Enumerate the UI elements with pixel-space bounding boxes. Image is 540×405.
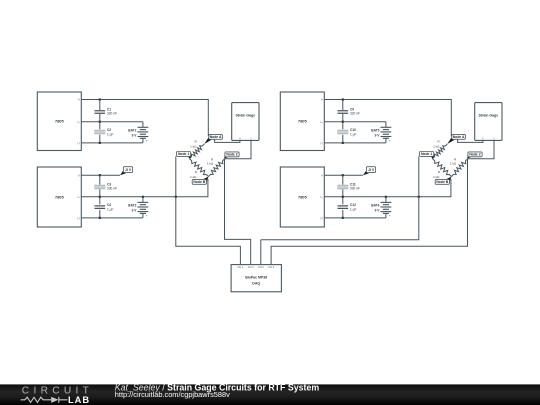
svg-text:A: A <box>321 98 323 102</box>
svg-text:1 kΩ: 1 kΩ <box>450 162 457 166</box>
svg-text:1 µF: 1 µF <box>350 132 356 136</box>
svg-text:CH 1: CH 1 <box>237 265 243 269</box>
svg-text:Node 1: Node 1 <box>421 152 432 156</box>
svg-text:-5 V: -5 V <box>125 168 132 172</box>
svg-text:(-): (-) <box>320 216 323 220</box>
svg-text:1 kΩ: 1 kΩ <box>190 175 197 179</box>
svg-text:Node B: Node B <box>436 180 448 184</box>
svg-text:1 µF: 1 µF <box>107 207 113 211</box>
svg-text:330 nF: 330 nF <box>107 112 117 116</box>
svg-text:I+: I+ <box>320 120 323 124</box>
svg-text:1 kΩ: 1 kΩ <box>190 144 197 148</box>
svg-text:CH 4: CH 4 <box>268 265 274 269</box>
svg-text:+: + <box>146 139 148 143</box>
svg-text:+: + <box>146 214 148 218</box>
svg-text:Node A: Node A <box>453 135 465 139</box>
svg-text:I+: I+ <box>77 120 80 124</box>
svg-text:7805: 7805 <box>298 119 308 124</box>
svg-text:A: A <box>78 98 80 102</box>
svg-text:Strain Gage: Strain Gage <box>479 114 499 118</box>
svg-text:(-): (-) <box>77 216 80 220</box>
svg-text:A: A <box>321 173 323 177</box>
svg-text:Node 2: Node 2 <box>469 153 480 157</box>
svg-text:330 nF: 330 nF <box>107 187 117 191</box>
svg-text:BAT2: BAT2 <box>128 203 136 207</box>
svg-text:CH 3: CH 3 <box>258 265 264 269</box>
svg-text:DAQ: DAQ <box>252 281 260 285</box>
svg-text:Strain Gage: Strain Gage <box>236 114 256 118</box>
svg-text:http://circuitlab.com/cgpjbawr: http://circuitlab.com/cgpjbawrs588v <box>115 390 230 399</box>
svg-text:CH 2: CH 2 <box>248 265 254 269</box>
svg-text:BAT5: BAT5 <box>371 128 379 132</box>
svg-text:I+: I+ <box>77 195 80 199</box>
svg-text:7805: 7805 <box>55 119 65 124</box>
svg-text:330 nF: 330 nF <box>350 112 360 116</box>
svg-text:Node B: Node B <box>193 180 205 184</box>
svg-text:(-): (-) <box>77 141 80 145</box>
svg-text:Node A: Node A <box>210 135 222 139</box>
svg-text:1 kΩ: 1 kΩ <box>433 144 440 148</box>
svg-text:LAB: LAB <box>68 395 90 405</box>
svg-text:+: + <box>389 139 391 143</box>
svg-text:7805: 7805 <box>55 194 65 199</box>
svg-text:(-): (-) <box>320 141 323 145</box>
svg-text:330 nF: 330 nF <box>350 187 360 191</box>
svg-text:BAT1: BAT1 <box>128 128 136 132</box>
svg-text:+: + <box>389 214 391 218</box>
svg-text:1 kΩ: 1 kΩ <box>433 175 440 179</box>
svg-text:A: A <box>78 173 80 177</box>
svg-text:BioPac MP36: BioPac MP36 <box>245 276 267 280</box>
svg-text:1 µF: 1 µF <box>350 207 356 211</box>
svg-text:Node 1: Node 1 <box>178 152 189 156</box>
svg-text:7805: 7805 <box>298 194 308 199</box>
svg-text:1 µF: 1 µF <box>107 132 113 136</box>
svg-text:-5 V: -5 V <box>368 168 375 172</box>
svg-text:BAT6: BAT6 <box>371 203 379 207</box>
svg-text:Node 2: Node 2 <box>226 153 237 157</box>
svg-text:I+: I+ <box>320 195 323 199</box>
svg-text:1 kΩ: 1 kΩ <box>207 162 214 166</box>
